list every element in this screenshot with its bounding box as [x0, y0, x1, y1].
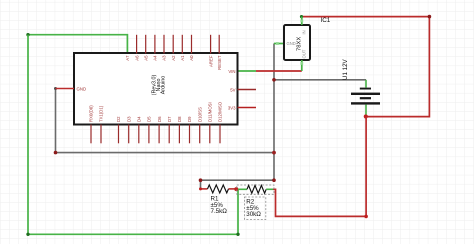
svg-text:Arduino: Arduino	[160, 76, 166, 95]
Arduino top pin labels	[125, 55, 222, 70]
svg-text:GND: GND	[77, 86, 87, 91]
svg-text:D5: D5	[147, 116, 152, 122]
svg-text:U1 12V: U1 12V	[342, 58, 349, 80]
svg-text:A3: A3	[162, 55, 167, 61]
wire: battery positive to R2 right (red)	[273, 117, 368, 219]
svg-text:D3: D3	[126, 116, 131, 122]
wire: Arduino GND to ground rail (gray)	[54, 87, 274, 154]
svg-text:AREF: AREF	[208, 55, 213, 67]
svg-text:RX0(D0): RX0(D0)	[89, 105, 94, 122]
voltage regulator IC1	[276, 17, 331, 71]
wire: IC1 IN to battery positive (red)	[300, 15, 431, 117]
Arduino bottom pin labels	[89, 101, 223, 122]
Arduino top pin leads A6..A0, AREF, RESET	[137, 35, 220, 54]
Arduino 5V pin	[230, 87, 256, 92]
svg-text:5V: 5V	[230, 87, 235, 92]
resistor R1	[199, 185, 236, 215]
wire: IC1 OUT to Arduino VIN (green + red)	[238, 70, 302, 72]
battery pin stubs	[365, 80, 367, 88]
svg-text:IN: IN	[302, 30, 307, 34]
node GND junction	[272, 151, 276, 155]
wire: left/bottom green run from A7 wire to R1/R2 junction	[26, 35, 239, 236]
svg-text:RESET: RESET	[217, 55, 222, 70]
svg-text:D9: D9	[187, 116, 192, 122]
pin OUT stub	[301, 60, 303, 71]
svg-text:D6: D6	[157, 116, 162, 122]
svg-text:A5: A5	[143, 55, 148, 61]
battery U1 12V	[342, 58, 380, 114]
svg-text:D2: D2	[116, 116, 121, 122]
pin IN stub	[301, 17, 303, 25]
wire: IC1 GND pin to ground rail (green)	[274, 43, 284, 45]
svg-text:78XX: 78XX	[297, 37, 303, 51]
svg-text:7.5kΩ: 7.5kΩ	[211, 208, 228, 215]
svg-text:GND: GND	[287, 41, 296, 46]
wire: divider tap to Arduino A7 (green, top)	[26, 33, 127, 54]
svg-text:D11/MOSI: D11/MOSI	[208, 102, 213, 122]
svg-text:A2: A2	[171, 55, 176, 61]
node R1/R2 junction	[234, 187, 238, 191]
svg-text:VIN: VIN	[228, 69, 235, 74]
wire: ground rail vertical to R1 left (gray)	[199, 44, 276, 189]
svg-text:D7: D7	[167, 116, 172, 122]
resistor R2 (selected)	[237, 185, 274, 220]
svg-text:A4: A4	[153, 55, 158, 61]
svg-text:A7: A7	[125, 55, 130, 61]
Arduino Nano (Rev3.0) module body	[74, 53, 238, 125]
wire: ground rail to battery negative (gray)	[272, 78, 366, 82]
svg-text:D10/SS: D10/SS	[197, 107, 202, 122]
svg-text:IC1: IC1	[321, 17, 331, 24]
Arduino bottom pin leads RX0(D0)..D12/MISO	[91, 125, 220, 144]
svg-text:D8: D8	[177, 116, 182, 122]
Arduino 3V3 pin	[228, 105, 256, 110]
svg-text:A6: A6	[134, 55, 139, 61]
svg-text:TX1(D1): TX1(D1)	[99, 105, 104, 122]
svg-text:A0: A0	[189, 55, 194, 61]
svg-text:3V3: 3V3	[228, 105, 236, 110]
Arduino GND pin	[56, 86, 87, 91]
node battery plus junction	[364, 114, 368, 118]
svg-text:30kΩ: 30kΩ	[246, 211, 261, 218]
svg-text:D4: D4	[137, 116, 142, 122]
svg-text:D12/MISO: D12/MISO	[218, 101, 223, 122]
svg-text:A1: A1	[180, 55, 185, 61]
